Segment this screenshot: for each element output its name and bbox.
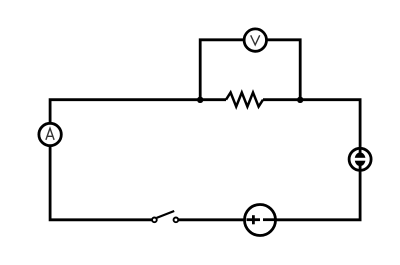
node: right junction dot [297,97,303,103]
ammeter A [39,123,61,145]
resistor (zigzag between nodes) [226,93,263,107]
switch (open SPST): left contact [152,218,157,223]
wire: voltmeter parallel branch (up from left node, across top, down to right node) [200,40,300,101]
lamp (neon-style: circle with two filled electrode lobes) on right side [349,148,371,172]
wire: right segment of main loop (from resistor right lead, top-right corner, right side, bottom run to switch right contact) [176,100,360,220]
switch: right contact [174,218,179,223]
switch: lever arm [157,211,175,218]
voltmeter V [244,29,266,51]
battery / voltage source (circle with + and - marks) [245,205,277,236]
node: left junction dot [197,97,203,103]
wire: top-left segment of main loop (top-left corner, left side, bottom-left run to switch) [50,100,226,220]
